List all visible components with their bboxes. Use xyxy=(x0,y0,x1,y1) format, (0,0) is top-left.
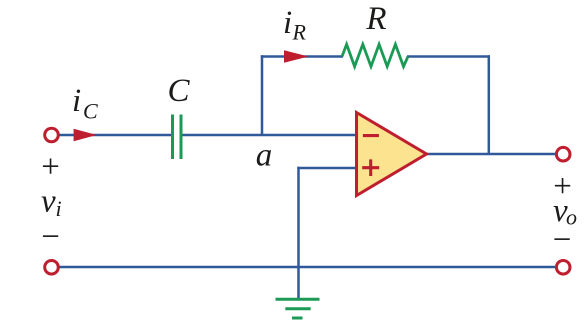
capacitor C (plates) xyxy=(173,115,182,160)
label R xyxy=(365,1,386,37)
wire: capacitor to op-amp inverting input xyxy=(183,134,358,137)
wire: input terminal to capacitor xyxy=(57,134,171,137)
svg-text:i: i xyxy=(283,5,292,41)
svg-text:+: + xyxy=(41,149,60,185)
wire: bottom rail xyxy=(57,266,557,269)
label + (output polarity) xyxy=(553,169,572,205)
label v_i xyxy=(41,184,62,222)
label + (input polarity) xyxy=(41,149,60,185)
svg-text:−: − xyxy=(41,219,60,255)
wire: right feedback vertical xyxy=(488,55,491,154)
svg-text:R: R xyxy=(365,1,386,37)
wire: ground vertical xyxy=(297,167,300,299)
current arrow iR xyxy=(284,50,309,62)
terminal: input top-left xyxy=(45,128,59,142)
svg-text:a: a xyxy=(256,138,273,174)
wire: resistor to right vertical xyxy=(407,55,490,58)
resistor R (zigzag) xyxy=(342,44,408,66)
label - (input polarity) xyxy=(41,219,60,255)
svg-text:i: i xyxy=(56,196,62,221)
terminal: output top-right xyxy=(556,147,570,161)
label i_C xyxy=(72,83,98,124)
svg-text:R: R xyxy=(292,20,307,45)
svg-text:C: C xyxy=(167,73,190,109)
svg-text:i: i xyxy=(72,83,81,119)
svg-text:−: − xyxy=(553,222,572,258)
wire: node a vertical up to feedback branch xyxy=(261,55,264,136)
wire: top feedback left segment to resistor xyxy=(261,55,343,58)
ground xyxy=(276,299,320,318)
label i_R xyxy=(283,5,307,45)
label C xyxy=(167,73,190,109)
current arrow iC xyxy=(74,129,97,141)
op-amp U1 xyxy=(357,113,427,196)
label - (output polarity) xyxy=(553,222,572,258)
svg-text:C: C xyxy=(83,99,98,124)
terminal: output bottom-right xyxy=(556,261,570,275)
wire: non-inverting input horizontal xyxy=(297,167,357,170)
wire: op-amp output to output terminal xyxy=(425,153,556,156)
svg-text:v: v xyxy=(41,184,56,220)
label v_o xyxy=(553,193,577,230)
terminal: input bottom-left xyxy=(45,261,59,275)
node a label xyxy=(256,138,273,174)
